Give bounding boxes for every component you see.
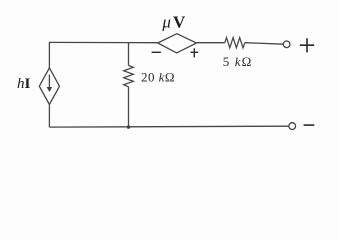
wire: 5k resistor to positive terminal	[245, 43, 283, 45]
current source arrow (pointing down)	[48, 75, 50, 89]
positive output terminal (open circle)	[283, 41, 290, 48]
minus sign at voltage source left	[152, 51, 161, 53]
junction dot at bottom rail / 20k branch	[127, 125, 130, 128]
wire: left vertical bottom (current source to bottom rail)	[48, 105, 50, 128]
dependent current source hI (diamond)	[39, 68, 59, 105]
svg-text:μV: μV	[161, 12, 186, 31]
svg-text:hI: hI	[17, 76, 31, 92]
wire: middle branch bottom (20k resistor to bottom rail)	[128, 87, 130, 128]
plus sign at voltage source right	[191, 48, 199, 57]
dependent voltage source muV (diamond)	[158, 34, 197, 53]
negative output terminal (open circle)	[289, 123, 296, 130]
wire: top rail left (node a to voltage source)	[49, 41, 157, 43]
svg-text:20 kΩ: 20 kΩ	[141, 70, 175, 85]
minus sign at negative output terminal	[304, 124, 315, 126]
resistor R 20 kOhm (vertical zigzag)	[124, 66, 134, 87]
plus sign at positive output terminal	[300, 38, 314, 52]
current source arrowhead	[47, 87, 53, 92]
wire: left vertical top (corner down to current source)	[48, 42, 50, 68]
svg-text:5 kΩ: 5 kΩ	[223, 54, 253, 69]
wire: bottom rail	[49, 125, 289, 128]
resistor R 5 kOhm (horizontal zigzag)	[225, 38, 245, 48]
wire: middle branch top (top rail to 20k resistor)	[128, 42, 130, 65]
wire: top rail right (voltage source to 5k resistor)	[197, 42, 225, 44]
